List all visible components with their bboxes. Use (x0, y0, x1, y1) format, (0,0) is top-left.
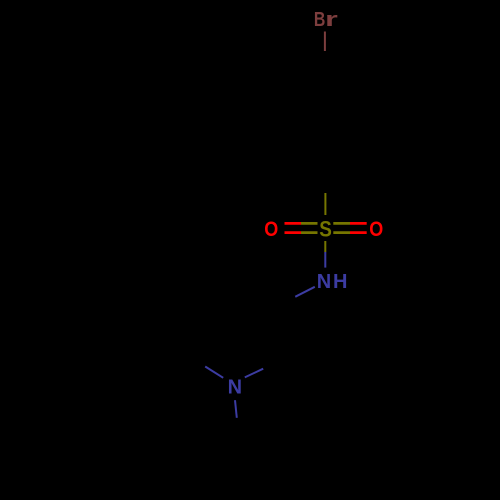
bond S - NH (S half, olive) (324, 241, 326, 252)
bond NH - C3 (N half, blue) (295, 287, 315, 297)
svg-text:N: N (228, 377, 242, 399)
bond Br - ring (Br half) (324, 32, 326, 52)
bond ring C - S (C half, dark) (324, 167, 326, 193)
bond C3 - C4 (231, 278, 275, 307)
bond C2 - N (C half) (263, 359, 281, 368)
double bond S=O left, lower line (285, 231, 302, 234)
bond N - CH3 (N half, blue) (235, 400, 237, 418)
svg-text:B: B (314, 9, 326, 31)
svg-text:r: r (325, 9, 338, 31)
bond NH - C3 (C half, dark) (274, 297, 295, 308)
bond ring C - S (S half, olive) (324, 193, 326, 215)
double bond S=O left, upper line (285, 222, 302, 225)
bond S - NH (N half, blue) (324, 252, 326, 268)
double bond S=O right, lower line (333, 231, 350, 234)
svg-text:O: O (264, 217, 278, 241)
bond N - CH3 (C half) (237, 418, 239, 437)
svg-text:NH: NH (317, 271, 350, 293)
svg-text:O: O (369, 217, 383, 241)
bond C5 - C6 (184, 305, 191, 357)
benzene ring (carbon bonds, black on black) (285, 73, 366, 167)
bond N - C2 (N half, blue) (245, 369, 263, 378)
bond C4 - C5 (184, 278, 231, 305)
svg-text:S: S (319, 216, 332, 241)
bond N - C6 (N half, blue) (205, 367, 223, 378)
bond C3 - C2 (274, 307, 281, 359)
bond C6 - N (C half) (188, 356, 205, 367)
double bond S=O right, upper line (333, 222, 350, 225)
bond Br - ring (C half, dark) (324, 51, 327, 73)
piperidine ring carbon bonds (dark) (184, 278, 281, 437)
